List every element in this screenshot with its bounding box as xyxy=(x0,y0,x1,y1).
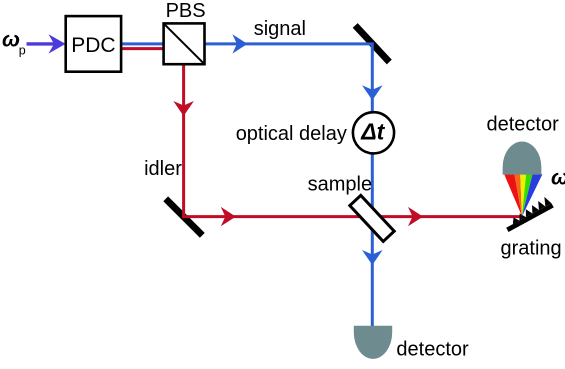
arrowhead pump (violet) xyxy=(49,34,66,53)
svg-text:ω: ω xyxy=(2,28,20,52)
optical delay circle U1 xyxy=(353,112,394,153)
wire: red idler beam PDC to PBS xyxy=(120,47,170,50)
box PDC xyxy=(66,16,121,72)
mirror M1 (top right) xyxy=(355,25,389,62)
box PBS (beam splitter cube) xyxy=(164,23,205,64)
svg-text:p: p xyxy=(19,44,26,58)
svg-text:PDC: PDC xyxy=(71,34,115,57)
arrowhead red right (after sample) xyxy=(408,207,423,226)
grating (black sawtooth) xyxy=(502,195,554,232)
wire: red idler vertical PBS down to mirror M2 then right to grating xyxy=(184,62,521,217)
svg-text:sample: sample xyxy=(308,174,372,196)
fan band blue xyxy=(522,174,542,216)
arrowhead blue down (above delay circle) xyxy=(362,85,383,100)
fan band orange xyxy=(514,174,522,216)
detector D2 dome (top right) xyxy=(503,142,542,175)
wire: pump beam (violet) into PDC xyxy=(27,42,55,45)
fan band red xyxy=(504,174,522,216)
sample slab xyxy=(350,195,394,241)
arrowhead blue down (below sample) xyxy=(362,250,383,265)
svg-text:grating: grating xyxy=(501,238,562,260)
mirror M2 (lower left) xyxy=(166,199,203,236)
svg-text:signal: signal xyxy=(254,18,306,40)
svg-text:detector: detector xyxy=(487,114,560,136)
svg-text:PBS: PBS xyxy=(166,0,206,22)
svg-text:detector: detector xyxy=(396,338,469,360)
svg-text:ω: ω xyxy=(551,166,565,190)
arrowhead red right (after mirror M2) xyxy=(221,207,236,226)
svg-text:optical delay: optical delay xyxy=(236,123,347,145)
fan band yellow xyxy=(520,174,526,216)
fan band green xyxy=(522,174,533,216)
PBS diagonal xyxy=(165,24,204,63)
svg-text:idler: idler xyxy=(144,158,182,180)
svg-text:Δt: Δt xyxy=(360,119,385,145)
arrowhead red down xyxy=(173,101,194,116)
wire: blue signal beam PDC to mirror M1 then down to detector D1 xyxy=(120,44,372,327)
detector D1 dome (bottom) xyxy=(354,326,392,359)
arrowhead signal (blue, right) xyxy=(232,34,247,53)
